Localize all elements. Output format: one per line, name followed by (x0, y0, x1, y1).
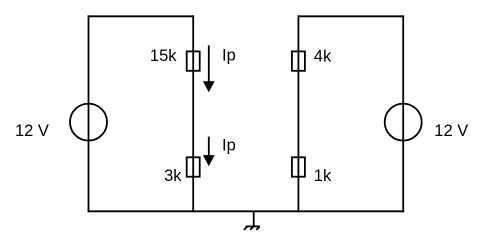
wire: left vertical through source V1 (88, 16, 90, 211)
wire: middle-left vertical through 15k and 3k (192, 16, 194, 211)
ground (chassis) (244, 211, 260, 230)
wire: right vertical through source V2 (402, 16, 404, 211)
resistor 1k (292, 157, 305, 176)
svg-text:12 V: 12 V (434, 122, 468, 140)
wire: middle-right vertical through 4k and 1k (297, 16, 299, 211)
voltage source V2 (385, 104, 422, 141)
svg-text:Ip: Ip (222, 47, 236, 65)
svg-text:Ip: Ip (222, 137, 236, 155)
svg-text:15k: 15k (150, 47, 177, 65)
svg-text:3k: 3k (164, 167, 182, 185)
wire: bottom rail (89, 210, 404, 212)
resistor 15k (187, 51, 200, 70)
svg-text:1k: 1k (314, 167, 332, 185)
current arrow Ip (bottom) (203, 137, 215, 167)
wire: right loop top (298, 15, 403, 17)
svg-text:12 V: 12 V (15, 122, 49, 140)
svg-text:4k: 4k (314, 47, 332, 65)
voltage source V1 (70, 104, 107, 141)
wire: left loop top (node A to node B) (89, 15, 194, 17)
current arrow Ip (top) (203, 45, 215, 92)
resistor 4k (292, 51, 305, 70)
resistor 3k (187, 157, 200, 176)
